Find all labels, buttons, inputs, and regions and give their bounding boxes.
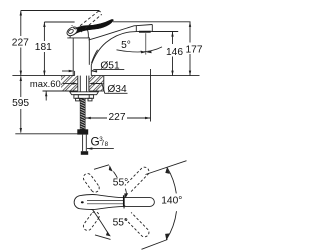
dashed handle position upper left <box>83 174 99 193</box>
extension line bottom of hose for 595 <box>15 133 77 135</box>
handle dome <box>70 28 88 38</box>
extension line spout outlet for 146 <box>152 31 179 33</box>
label max.60 <box>30 79 62 88</box>
svg-text:Ø34: Ø34 <box>107 84 127 95</box>
washer below deck <box>70 92 99 95</box>
dimension 595 vertical line <box>20 76 22 97</box>
top view spout and handle outline <box>74 194 154 209</box>
svg-text:max.60: max.60 <box>30 78 61 89</box>
svg-text:8: 8 <box>105 141 109 148</box>
dimension texts <box>12 38 203 229</box>
svg-text:55°: 55° <box>113 178 128 189</box>
max.60 bottom reference line <box>43 90 62 92</box>
deck right edge <box>103 76 105 91</box>
escutcheon right edge <box>90 65 92 76</box>
dimension 227 horizontal line <box>85 117 107 119</box>
dimension 146 vertical line <box>172 32 174 44</box>
dimension arc 5 degrees <box>117 47 163 52</box>
svg-text:146: 146 <box>166 47 183 58</box>
svg-text:G: G <box>91 135 100 149</box>
extension line top for 177 <box>113 21 191 23</box>
mounting nut <box>74 95 94 99</box>
G 3/8 leader line <box>87 148 114 150</box>
threaded shank rod <box>80 98 85 129</box>
dimension 177 vertical line <box>189 22 191 43</box>
svg-text:181: 181 <box>35 42 52 53</box>
top view inner lines <box>87 200 124 202</box>
max.60 arrow below deck <box>45 91 47 100</box>
extension line upper spout position <box>146 161 187 175</box>
swivel arc 140 degrees <box>167 167 176 193</box>
deck hatch left block <box>61 76 78 91</box>
svg-text:227: 227 <box>109 112 126 123</box>
hose connector nut <box>77 129 88 134</box>
escutcheon left edge <box>74 71 76 76</box>
svg-text:55°: 55° <box>113 218 128 229</box>
handle dome base line <box>67 37 90 39</box>
extension line top for 227 <box>21 10 100 12</box>
extension line right for 227 horizontal <box>150 69 152 122</box>
shank tube walls <box>79 76 81 92</box>
dashed handle position lower left <box>83 212 99 231</box>
extension line top for 181 <box>44 21 74 23</box>
aerator <box>139 31 151 33</box>
svg-text:5°: 5° <box>121 40 131 51</box>
spout inner fillet line <box>92 50 98 63</box>
spout bottom curve <box>91 31 138 64</box>
upper 55 degree arc <box>94 165 109 170</box>
spout tip right edge <box>151 25 153 32</box>
svg-text:140°: 140° <box>161 196 182 207</box>
spout top curve <box>89 25 153 41</box>
spout tip seam <box>135 26 137 32</box>
faucet body left edge <box>72 38 74 76</box>
dimension 227 vertical line <box>20 11 22 37</box>
deck hole left edge <box>77 76 79 91</box>
svg-text:595: 595 <box>12 98 29 109</box>
water stream line <box>145 33 147 54</box>
lever handle solid <box>71 19 113 35</box>
raised lever dashed <box>72 11 102 32</box>
svg-text:177: 177 <box>186 45 203 56</box>
faucet body right edge <box>88 38 90 65</box>
nut tabs <box>76 98 80 101</box>
dashed spout position upper right <box>125 167 149 191</box>
flexible hose <box>82 135 84 152</box>
svg-text:227: 227 <box>12 38 29 49</box>
diameter 34 dimension <box>63 83 73 85</box>
svg-text:Ø51: Ø51 <box>100 61 120 72</box>
lever front knob <box>65 25 79 37</box>
spout tip bottom edge <box>139 30 153 32</box>
top view swivel tick <box>123 195 125 207</box>
deck bottom edge <box>61 90 78 92</box>
deck hole right edge <box>88 76 90 91</box>
hose end fitting <box>81 151 88 155</box>
extension line lower spout position <box>142 240 168 250</box>
top view handle dot <box>81 201 84 203</box>
deck hatch right block <box>89 76 104 91</box>
dashed spout position lower right <box>125 212 149 236</box>
lower 55 degree arc <box>123 205 125 209</box>
deck top reference line <box>12 75 74 77</box>
diameter 51 dimension <box>62 70 69 72</box>
dimension 181 vertical line <box>43 22 45 41</box>
